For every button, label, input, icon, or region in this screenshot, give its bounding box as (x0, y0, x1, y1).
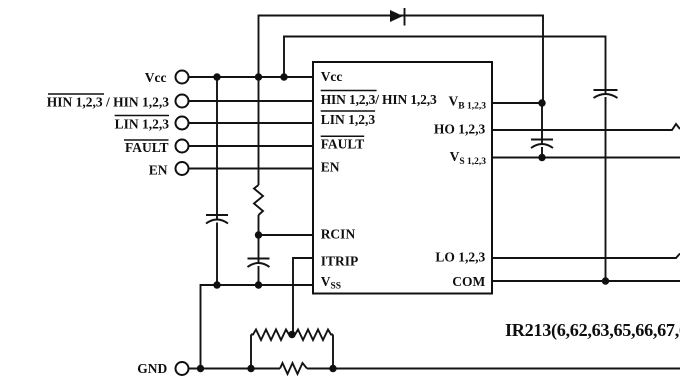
svg-text:Vcc: Vcc (321, 69, 343, 84)
svg-text:HIN 1,2,3/ HIN 1,2,3: HIN 1,2,3/ HIN 1,2,3 (321, 92, 437, 107)
svg-text:RCIN: RCIN (321, 227, 356, 242)
svg-text:FAULT: FAULT (321, 137, 365, 152)
svg-text:HIN 1,2,3 / HIN 1,2,3: HIN 1,2,3 / HIN 1,2,3 (47, 94, 170, 109)
svg-text:ITRIP: ITRIP (321, 254, 359, 269)
svg-text:Vcc: Vcc (145, 70, 167, 85)
svg-text:EN: EN (149, 163, 168, 178)
svg-text:VS 1,2,3: VS 1,2,3 (450, 149, 487, 167)
svg-text:LIN 1,2,3: LIN 1,2,3 (115, 117, 170, 132)
svg-text:VSS: VSS (321, 274, 341, 292)
svg-text:GND: GND (137, 361, 167, 376)
svg-text:IR213(6,62,63,65,66,67,68): IR213(6,62,63,65,66,67,68) (505, 320, 680, 341)
svg-text:VB 1,2,3: VB 1,2,3 (449, 93, 487, 111)
svg-text:LO 1,2,3: LO 1,2,3 (435, 250, 485, 265)
svg-text:LIN 1,2,3: LIN 1,2,3 (321, 112, 376, 127)
svg-text:HO 1,2,3: HO 1,2,3 (434, 122, 486, 137)
svg-text:FAULT: FAULT (125, 140, 169, 155)
svg-text:COM: COM (452, 274, 485, 289)
svg-text:EN: EN (321, 160, 340, 175)
